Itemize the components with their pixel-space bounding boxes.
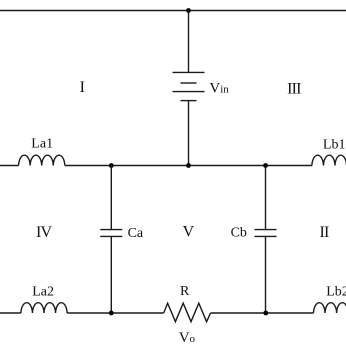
wire middle rail left lead xyxy=(0,165,19,167)
svg-text:IV: IV xyxy=(36,224,53,241)
wire battery bottom lead xyxy=(188,101,190,166)
wire top rail xyxy=(0,10,346,12)
node top junction dot xyxy=(186,8,191,13)
wire battery top lead xyxy=(188,11,190,73)
svg-text:Cb: Cb xyxy=(231,226,247,241)
battery Vin plates xyxy=(173,72,205,100)
node middle-left junction dot xyxy=(109,163,114,168)
svg-text:Lb2: Lb2 xyxy=(326,285,346,300)
node bottom-right junction dot xyxy=(263,311,268,316)
wire middle rail center xyxy=(65,165,312,167)
svg-text:R: R xyxy=(180,284,190,299)
node middle-right junction dot xyxy=(263,163,268,168)
node bottom-left junction dot xyxy=(109,311,114,316)
inductor Lb2 xyxy=(314,303,346,313)
svg-text:V: V xyxy=(183,224,195,241)
wire Ca top lead xyxy=(110,166,112,230)
wire Cb top lead xyxy=(265,166,267,230)
svg-text:Ca: Ca xyxy=(128,226,144,241)
svg-text:La2: La2 xyxy=(32,284,54,299)
svg-text:Vin: Vin xyxy=(209,81,229,97)
svg-text:La1: La1 xyxy=(31,136,53,151)
svg-text:Vo: Vo xyxy=(179,330,196,346)
wire bottom rail left-center xyxy=(67,312,164,314)
wire Cb bottom lead xyxy=(265,236,267,313)
node middle-center junction dot xyxy=(186,163,191,168)
svg-text:Lb1: Lb1 xyxy=(323,138,346,153)
svg-text:II: II xyxy=(319,224,329,241)
inductor La1 xyxy=(19,155,65,165)
svg-text:III: III xyxy=(287,80,301,97)
inductor Lb1 xyxy=(312,155,346,165)
wire bottom rail right-center xyxy=(211,312,314,314)
svg-text:I: I xyxy=(80,79,85,96)
wire bottom rail left lead xyxy=(0,312,21,314)
inductor La2 xyxy=(21,303,67,313)
resistor R xyxy=(164,303,211,322)
capacitor Cb xyxy=(255,230,277,237)
wire Ca bottom lead xyxy=(110,236,112,313)
capacitor Ca xyxy=(100,230,122,237)
